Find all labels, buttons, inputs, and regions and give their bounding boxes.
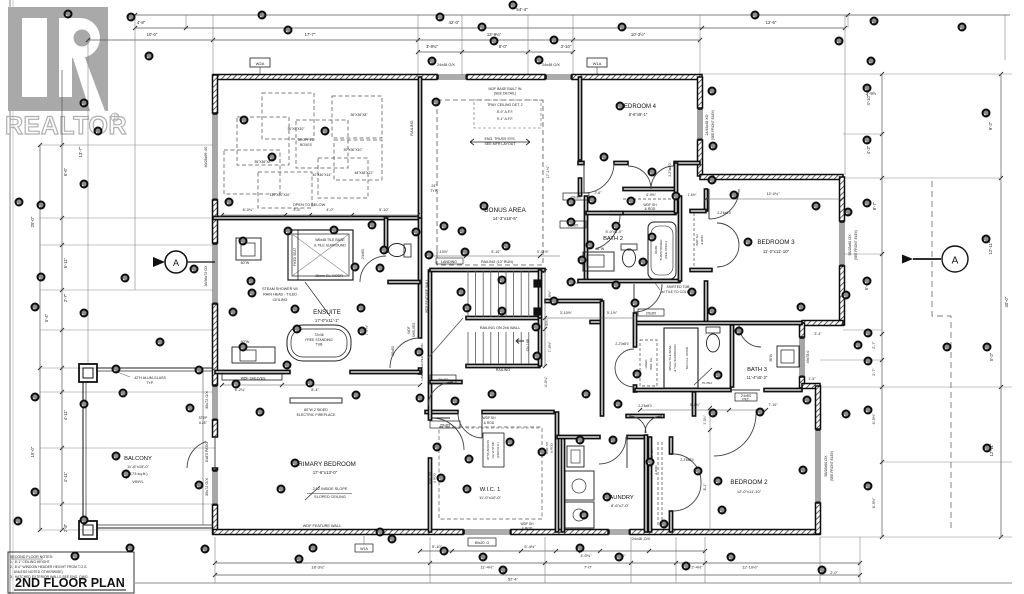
bedroom3 label xyxy=(757,239,795,254)
svg-text:30x72 O/X: 30x72 O/X xyxy=(205,478,209,496)
window bath3 49x78 xyxy=(800,337,811,377)
svg-text:24x48 ,O/X: 24x48 ,O/X xyxy=(632,537,651,541)
svg-text:24x48 O/X: 24x48 O/X xyxy=(437,63,455,67)
svg-text:(173 sq.ft.): (173 sq.ft.) xyxy=(128,471,148,476)
svg-text:10'-0": 10'-0" xyxy=(147,32,158,37)
bonus dims xyxy=(430,165,550,193)
exterior wall bedroom2 right xyxy=(816,386,821,534)
svg-text:ELECTRIC FIREPLACE: ELECTRIC FIREPLACE xyxy=(297,413,336,417)
svg-text:12'-10½": 12'-10½" xyxy=(742,565,758,570)
pocket door bath3 xyxy=(732,390,760,402)
stair dims right xyxy=(544,290,552,387)
svg-text:7'-0": 7'-0" xyxy=(584,565,593,570)
svg-text:SECOND FLOOR NOTES:: SECOND FLOOR NOTES: xyxy=(10,555,53,559)
svg-text:4'-0¾": 4'-0¾" xyxy=(580,553,592,558)
window left ensuite xyxy=(204,243,218,304)
svg-text:2-2'6x8'0: 2-2'6x8'0 xyxy=(717,211,731,215)
svg-text:WDF SH: WDF SH xyxy=(428,472,432,484)
bath2 vanity xyxy=(583,247,614,271)
svg-text:3'-10½": 3'-10½" xyxy=(436,250,449,254)
svg-text:11'-2"x11'-10": 11'-2"x11'-10" xyxy=(763,249,790,254)
svg-text:2'-7": 2'-7" xyxy=(872,368,876,376)
patio door swing xyxy=(187,441,206,468)
svg-text:5'-1½": 5'-1½" xyxy=(607,311,618,315)
svg-text:2'-0": 2'-0" xyxy=(830,571,838,575)
svg-text:52'-4": 52'-4" xyxy=(508,577,519,582)
svg-text:RAILING (10" RUN): RAILING (10" RUN) xyxy=(481,260,513,264)
svg-text:BATH 2: BATH 2 xyxy=(603,236,623,242)
svg-text:PRIMARY BEDROOM: PRIMARY BEDROOM xyxy=(294,461,356,468)
hall closet walls xyxy=(610,163,678,215)
svg-text:30x72 O/X: 30x72 O/X xyxy=(205,391,209,409)
svg-text:2'-7": 2'-7" xyxy=(872,341,876,349)
balcony labels xyxy=(124,456,152,484)
ensuite tub xyxy=(287,325,351,361)
corridor dim small xyxy=(567,281,580,285)
svg-text:W5x32 TILE BASE: W5x32 TILE BASE xyxy=(668,345,672,370)
window bedroom3 right 58/28x60 xyxy=(840,221,859,266)
bedroom3 bottom wall xyxy=(704,281,707,323)
svg-text:9'-2": 9'-2" xyxy=(988,121,993,130)
ensuite walls xyxy=(215,218,422,374)
bath2 door tags xyxy=(560,193,589,228)
svg-text:BALCONY: BALCONY xyxy=(124,456,152,462)
window tag W2A xyxy=(250,58,270,77)
window left 60/28x99 xyxy=(204,113,218,200)
svg-text:8'-7": 8'-7" xyxy=(872,201,877,210)
window left 30x72 lower xyxy=(205,470,218,505)
ensuite shower xyxy=(288,230,353,316)
svg-text:4'-8": 4'-8" xyxy=(137,20,146,25)
stairs lower run treads xyxy=(468,332,529,364)
svg-text:W.I.C. 1: W.I.C. 1 xyxy=(480,487,501,493)
svg-text:(SEE DETAIL): (SEE DETAIL) xyxy=(494,92,516,96)
svg-text:& ROD: & ROD xyxy=(550,442,554,453)
bedroom3 door xyxy=(709,189,739,219)
fireplace xyxy=(290,398,342,417)
window bedroom2 right 58/28x60 xyxy=(816,429,835,503)
svg-text:31"W: 31"W xyxy=(596,247,605,251)
washer dryer xyxy=(565,446,594,528)
corridor door xyxy=(634,284,664,316)
svg-text:11'-4½": 11'-4½" xyxy=(480,565,494,570)
bonus area tray ceiling xyxy=(437,87,543,265)
svg-text:13'-7": 13'-7" xyxy=(78,146,83,157)
svg-text:FREE STANDING: FREE STANDING xyxy=(305,338,333,342)
svg-text:A: A xyxy=(173,258,179,268)
page border left xyxy=(10,0,13,594)
svg-text:17'-6"x13'-0": 17'-6"x13'-0" xyxy=(313,470,338,475)
svg-text:12'-0"x11'-10": 12'-0"x11'-10" xyxy=(737,489,762,494)
stair newel posts xyxy=(534,280,541,315)
svg-text:RAILING ON 2x6 WALL: RAILING ON 2x6 WALL xyxy=(480,326,520,330)
svg-text:2'-7": 2'-7" xyxy=(63,293,68,302)
svg-text:2'6x8'0: 2'6x8'0 xyxy=(646,312,656,316)
svg-text:4'-10": 4'-10" xyxy=(866,94,871,105)
svg-text:5'-10": 5'-10" xyxy=(491,250,501,254)
svg-text:2. 8'-0" WINDOW HEADER HEIGHT: 2. 8'-0" WINDOW HEADER HEIGHT FROM T.O.S… xyxy=(10,565,87,569)
svg-text:LINEN: LINEN xyxy=(644,360,648,369)
svg-text:50¾": 50¾" xyxy=(545,317,549,326)
ensuite labels xyxy=(313,309,369,335)
svg-text:2'6x8'0: 2'6x8'0 xyxy=(438,378,449,382)
svg-text:4'-0¼": 4'-0¼" xyxy=(544,376,548,387)
svg-text:58/28x60 OX: 58/28x60 OX xyxy=(848,234,852,256)
svg-text:14'-3"x18'-6": 14'-3"x18'-6" xyxy=(493,216,518,221)
bedroom3 closet doors xyxy=(717,211,739,267)
bath2 labels xyxy=(603,230,623,242)
svg-text:TYP.: TYP. xyxy=(430,189,438,193)
svg-text:RAILING: RAILING xyxy=(410,120,414,135)
svg-text:FIXED SEAT: FIXED SEAT xyxy=(293,248,297,266)
svg-text:(24x24 R.O.): (24x24 R.O.) xyxy=(496,442,500,458)
svg-text:2'-6": 2'-6" xyxy=(595,191,603,195)
ensuite shelves note xyxy=(407,323,416,337)
exterior wall left xyxy=(213,75,218,534)
svg-text:& ROD: & ROD xyxy=(484,421,495,425)
window left 30x72 upper xyxy=(205,385,218,420)
svg-text:8'-9" A.F.F.: 8'-9" A.F.F. xyxy=(497,110,514,114)
skirted tub note xyxy=(655,283,695,294)
patio door opening xyxy=(205,437,215,468)
exterior wall bedroom3 right xyxy=(840,177,845,325)
window tag W1A xyxy=(587,58,607,77)
svg-text:15mm GL. DOOR: 15mm GL. DOOR xyxy=(315,274,343,278)
laundry label xyxy=(606,495,634,508)
svg-text:30"X30"X10": 30"X30"X10" xyxy=(344,148,364,152)
bedroom4 bottom wall xyxy=(578,161,700,164)
svg-text:120"X20"X10": 120"X20"X10" xyxy=(270,193,292,197)
svg-text:5'-0"x8'-0": 5'-0"x8'-0" xyxy=(605,230,623,234)
svg-text:11'-0"x10'-0": 11'-0"x10'-0" xyxy=(479,495,502,500)
svg-text:RAILING: RAILING xyxy=(496,368,511,372)
notes box xyxy=(8,552,134,593)
svg-text:42"H ALUM-GLASS: 42"H ALUM-GLASS xyxy=(134,376,166,380)
svg-text:17'-7": 17'-7" xyxy=(305,32,316,37)
bath2 door xyxy=(595,215,620,249)
svg-text:32x65: 32x65 xyxy=(654,246,658,255)
attic access xyxy=(483,433,504,467)
step note xyxy=(199,416,209,425)
primary bedroom / wic divider xyxy=(428,270,431,532)
svg-text:18'-3¾": 18'-3¾" xyxy=(311,565,325,570)
stair closet rod xyxy=(466,427,540,429)
svg-text:TYP.: TYP. xyxy=(146,381,154,385)
svg-text:48"X48"X12": 48"X48"X12" xyxy=(355,171,375,175)
svg-text:A: A xyxy=(952,256,959,267)
svg-text:DROPPED: DROPPED xyxy=(298,138,315,142)
wic door xyxy=(458,412,482,438)
ensuite shelves wall xyxy=(222,374,282,381)
svg-text:W2A: W2A xyxy=(256,61,265,66)
svg-text:3'-10½": 3'-10½" xyxy=(560,311,573,315)
window bottom 80x20 xyxy=(463,530,511,547)
closet door tag xyxy=(595,163,672,197)
window bottom 24x48 xyxy=(608,530,630,535)
svg-text:STEP: STEP xyxy=(199,416,209,420)
svg-text:13'-9¼": 13'-9¼" xyxy=(487,32,502,37)
laundry right wall xyxy=(644,435,647,532)
svg-text:6'-6": 6'-6" xyxy=(63,167,68,176)
balcony glass rail note xyxy=(112,370,167,385)
svg-text:WDF SHELVES: WDF SHELVES xyxy=(241,377,266,381)
svg-text:12'-6": 12'-6" xyxy=(766,20,777,25)
svg-text:1. 8'-1" CEILING HEIGHT.: 1. 8'-1" CEILING HEIGHT. xyxy=(10,560,50,564)
svg-text:36"W: 36"W xyxy=(769,354,773,362)
svg-text:5'-4½": 5'-4½" xyxy=(524,544,536,549)
bedroom2 west closet walls xyxy=(648,437,672,532)
svg-text:CEILING: CEILING xyxy=(273,298,288,302)
svg-text:10'-3½": 10'-3½" xyxy=(631,32,646,37)
linen closet xyxy=(640,340,657,386)
svg-text:2'4x8'0: 2'4x8'0 xyxy=(361,249,365,259)
svg-text:60/28x99 .00: 60/28x99 .00 xyxy=(204,147,208,168)
section marker A left xyxy=(153,251,215,273)
corridor dim row xyxy=(545,311,778,412)
stair dim line xyxy=(543,269,547,368)
svg-text:6'-0¾": 6'-0¾" xyxy=(243,208,254,212)
right dimension lines xyxy=(700,72,1012,575)
svg-text:40'-0": 40'-0" xyxy=(1004,296,1009,307)
wall open-to-below bottom xyxy=(213,216,420,219)
svg-text:4'-0": 4'-0" xyxy=(326,208,334,212)
balcony railing xyxy=(83,368,213,528)
svg-text:WDF SH: WDF SH xyxy=(482,416,496,420)
svg-text:36"X9"X10": 36"X9"X10" xyxy=(287,127,305,131)
svg-text:WDF FEATURE WALL: WDF FEATURE WALL xyxy=(425,279,429,313)
svg-text:2-2'0x8'0: 2-2'0x8'0 xyxy=(668,163,672,176)
svg-text:24/48x48 XO: 24/48x48 XO xyxy=(705,114,709,135)
svg-text:ATTIC ACCESS: ATTIC ACCESS xyxy=(486,440,490,460)
ensuite vanity upper xyxy=(236,238,261,265)
bonus area right wall xyxy=(578,77,581,196)
open-to-below dropped boxes xyxy=(224,93,382,208)
svg-text:6'-9½": 6'-9½" xyxy=(872,413,876,424)
svg-text:WDF: WDF xyxy=(407,326,411,333)
balcony post lower xyxy=(79,521,97,539)
svg-text:5'-11": 5'-11" xyxy=(63,257,68,268)
corridor walls mid xyxy=(545,299,602,323)
svg-text:4'-0½": 4'-0½" xyxy=(646,193,657,197)
svg-text:(SEE FRONT ELEV): (SEE FRONT ELEV) xyxy=(711,110,715,140)
svg-text:W1A: W1A xyxy=(593,61,602,66)
svg-text:2'-8": 2'-8" xyxy=(63,523,68,532)
window top 24x48 W1A xyxy=(545,75,572,80)
bedroom4 door xyxy=(584,163,614,193)
svg-text:LANDING: LANDING xyxy=(441,260,457,264)
svg-text:BOXES: BOXES xyxy=(300,143,312,147)
svg-text:TUB/SHOWER: TUB/SHOWER xyxy=(659,239,663,261)
svg-text:3'-10": 3'-10" xyxy=(561,44,572,49)
svg-text:2ND FLOOR PLAN: 2ND FLOOR PLAN xyxy=(15,576,125,590)
svg-text:58/28x60 OX: 58/28x60 OX xyxy=(824,455,828,477)
svg-text:5'-4": 5'-4" xyxy=(44,313,49,322)
svg-text:4'-2": 4'-2" xyxy=(866,145,871,154)
svg-text:4'-11": 4'-11" xyxy=(63,409,68,420)
REALTOR wordmark xyxy=(5,112,127,140)
svg-text:SHELVES: SHELVES xyxy=(412,323,416,337)
svg-text:11'-4"x5'-2": 11'-4"x5'-2" xyxy=(747,375,768,380)
svg-text:& TILE SURROUND: & TILE SURROUND xyxy=(673,344,677,372)
svg-text:ENSUITE: ENSUITE xyxy=(313,309,341,316)
stairs labels xyxy=(436,258,530,372)
svg-text:6'-2¾": 6'-2¾" xyxy=(235,388,246,392)
primary door xyxy=(432,418,464,450)
primary bedroom label xyxy=(294,461,356,475)
svg-text:MDF BASE BUILT IN: MDF BASE BUILT IN xyxy=(489,87,522,91)
svg-text:SKIRTED TUB: SKIRTED TUB xyxy=(666,285,690,289)
svg-text:3'-4": 3'-4" xyxy=(814,332,822,336)
stairwell walls xyxy=(430,268,545,367)
laundry closet bifold xyxy=(629,404,662,433)
laundry door xyxy=(599,437,627,468)
ensuite dim row xyxy=(220,383,422,392)
ensuite water closet xyxy=(384,218,420,284)
line of sloped ceiling xyxy=(420,343,424,381)
svg-text:2'6x8'0: 2'6x8'0 xyxy=(391,346,395,356)
svg-text:1'-5": 1'-5" xyxy=(808,377,816,381)
top dimension lines xyxy=(86,7,1010,290)
stairs upper run treads xyxy=(468,271,529,317)
svg-text:2-2'6x8'0: 2-2'6x8'0 xyxy=(680,458,693,462)
stairs diagonal feature wall line xyxy=(425,279,463,358)
svg-text:W6x48 TILE BASE: W6x48 TILE BASE xyxy=(315,238,345,242)
svg-text:1'-6½": 1'-6½" xyxy=(687,193,696,197)
svg-text:7'-10": 7'-10" xyxy=(768,403,778,407)
svg-text:& ROD: & ROD xyxy=(700,235,704,244)
svg-text:36"X36"X8": 36"X36"X8" xyxy=(350,113,368,117)
svg-text:BONUS AREA: BONUS AREA xyxy=(484,207,526,214)
svg-text:8'-4": 8'-4" xyxy=(311,388,319,392)
svg-text:SEE MFR LAYOUT: SEE MFR LAYOUT xyxy=(484,142,516,146)
svg-text:PKT.: PKT. xyxy=(742,398,749,402)
REALTOR logo block xyxy=(8,7,108,111)
hall closet bifold doors xyxy=(628,166,674,189)
svg-text:& ROD: & ROD xyxy=(654,465,658,474)
title 2nd floor plan xyxy=(14,576,126,590)
exterior wall right of bedroom4 xyxy=(698,77,703,176)
svg-text:40"X40"X14": 40"X40"X14" xyxy=(313,173,333,177)
primary slope note xyxy=(300,484,352,500)
svg-text:3'-6": 3'-6" xyxy=(293,208,301,212)
svg-text:12'-0¾": 12'-0¾" xyxy=(767,192,780,196)
bonus area label xyxy=(484,207,526,221)
svg-text:RAIN HEAD - TILED: RAIN HEAD - TILED xyxy=(263,293,297,297)
bedroom3 dim xyxy=(704,192,844,201)
bath2 tub xyxy=(648,222,676,279)
ensuite wc door arc xyxy=(360,249,386,282)
svg-text:17'-1⅛": 17'-1⅛" xyxy=(546,165,550,178)
svg-text:24x48 O/X: 24x48 O/X xyxy=(542,63,560,67)
window bedroom4 right xyxy=(698,108,716,140)
svg-text:& ROD: & ROD xyxy=(522,527,533,531)
svg-text:8'-6"x7'-0": 8'-6"x7'-0" xyxy=(611,503,630,508)
svg-text:(SEE SPEC.): (SEE SPEC.) xyxy=(664,241,668,259)
svg-text:5'-10": 5'-10" xyxy=(379,208,389,212)
bath3 shower xyxy=(664,328,712,388)
window top 24x48 xyxy=(437,75,467,80)
bath3 entry door xyxy=(739,325,761,347)
wic sloped ceiling dashed xyxy=(439,427,542,519)
svg-text:TRAY CEILING DET. 2: TRAY CEILING DET. 2 xyxy=(487,103,523,107)
bath3 toilet xyxy=(706,327,720,352)
svg-text:BEDROOM 4: BEDROOM 4 xyxy=(620,104,657,110)
svg-text:SLOPED CEILING: SLOPED CEILING xyxy=(314,495,346,499)
wic/laundry divider xyxy=(555,412,646,532)
svg-text:49x78.0: 49x78.0 xyxy=(806,351,810,364)
svg-text:(SEE FRONT ELEV): (SEE FRONT ELEV) xyxy=(854,230,858,260)
laundry tag xyxy=(632,537,651,541)
svg-text:c/w W-STRIP: c/w W-STRIP xyxy=(491,442,495,459)
svg-text:8'-1": 8'-1" xyxy=(703,483,707,491)
svg-text:R: R xyxy=(113,114,118,121)
attic tag line xyxy=(215,440,240,452)
railing wall stairwell right of open-to-below xyxy=(410,77,422,218)
bath2 toilet xyxy=(621,244,637,267)
svg-text:REALTOR: REALTOR xyxy=(5,112,127,140)
svg-text:12'-11": 12'-11" xyxy=(988,241,993,254)
ensuite shower labels xyxy=(262,238,346,302)
svg-text:TIL/TRA: TIL/TRA xyxy=(702,381,713,385)
svg-text:1'-5¾": 1'-5¾" xyxy=(703,414,707,424)
bedroom4 label xyxy=(620,104,657,117)
svg-text:60"W: 60"W xyxy=(241,261,250,265)
svg-text:BATH 3: BATH 3 xyxy=(747,367,767,373)
exterior wall top xyxy=(213,75,702,80)
under-stair closet xyxy=(428,375,462,428)
balcony post upper xyxy=(79,364,97,382)
svg-text:15'-0": 15'-0" xyxy=(30,446,35,457)
svg-text:2'-4½": 2'-4½" xyxy=(691,565,703,570)
svg-text:WDF FEATURE WALL: WDF FEATURE WALL xyxy=(303,524,341,528)
wic label xyxy=(479,487,502,500)
svg-text:(SEE FRONT ELEV): (SEE FRONT ELEV) xyxy=(830,451,834,481)
svg-text:TUB: TUB xyxy=(316,343,324,347)
ensuite entry door xyxy=(390,338,420,368)
svg-text:BEDROOM 2: BEDROOM 2 xyxy=(730,479,768,486)
svg-text:2-2'0x8'0: 2-2'0x8'0 xyxy=(615,342,628,346)
bottom dimension lines xyxy=(135,537,1012,583)
svg-text:& TILE SURROUND: & TILE SURROUND xyxy=(314,244,346,248)
bath3 dim 3-4 xyxy=(802,332,830,381)
svg-text:8'-0": 8'-0" xyxy=(499,44,508,49)
section marker A right xyxy=(902,246,968,272)
svg-text:8'-6"x9'-1": 8'-6"x9'-1" xyxy=(629,112,648,117)
bath2 walls xyxy=(578,196,682,283)
svg-text:UNLESS NOTED OTHERWISE).: UNLESS NOTED OTHERWISE). xyxy=(10,570,64,574)
svg-text:72x36: 72x36 xyxy=(314,333,323,337)
svg-text:17'-0"x11'-1": 17'-0"x11'-1" xyxy=(315,318,340,323)
svg-text:ENG. TRUSS SYS.: ENG. TRUSS SYS. xyxy=(484,137,515,141)
ensuite vanity lower xyxy=(232,340,275,363)
svg-text:WDF SH: WDF SH xyxy=(695,234,699,245)
left dimension lines xyxy=(30,40,215,532)
svg-text:80"W 2 SIDED: 80"W 2 SIDED xyxy=(304,408,328,412)
svg-text:WDF SH: WDF SH xyxy=(649,358,653,370)
svg-text:BEDROOM 3: BEDROOM 3 xyxy=(757,239,795,246)
svg-text:11'-6"x15'-0": 11'-6"x15'-0" xyxy=(127,464,150,469)
bedroom2 entry door xyxy=(714,414,756,456)
svg-text:42'-0": 42'-0" xyxy=(449,20,460,25)
svg-text:5'-11½": 5'-11½" xyxy=(537,250,550,254)
svg-text:36/36x72 OX: 36/36x72 OX xyxy=(204,265,208,287)
svg-text:25'-0": 25'-0" xyxy=(30,216,35,227)
bath3 walls xyxy=(633,313,802,392)
svg-text:& ROD: & ROD xyxy=(433,472,437,483)
bedroom2 closet doors xyxy=(650,442,701,526)
svg-text:STEAM SHOWER W/: STEAM SHOWER W/ xyxy=(262,287,299,291)
svg-text:54'-4": 54'-4" xyxy=(516,7,528,12)
